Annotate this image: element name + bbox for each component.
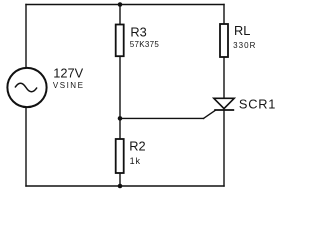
- resistor R3 body: [116, 25, 124, 57]
- wire middle branch top (top rail to R3): [119, 5, 121, 25]
- wire top rail: [26, 4, 224, 6]
- junction dot top (node at top rail / R3 branch): [118, 2, 123, 7]
- wire middle branch bottom (R2 to bottom rail): [119, 173, 121, 186]
- source V1 sine symbol: [15, 83, 37, 92]
- svg-text:R2: R2: [129, 139, 145, 154]
- wire right branch top (top rail to RL): [223, 5, 225, 25]
- wire left vertical (source anode): [25, 5, 27, 68]
- svg-text:1k: 1k: [130, 156, 141, 166]
- thyristor SCR1 triangle: [214, 98, 234, 108]
- source V1 circle: [7, 68, 46, 107]
- svg-text:57K375: 57K375: [130, 40, 160, 49]
- wire middle branch (R3 to R2 through gate node): [119, 56, 121, 139]
- wire gate horizontal segment: [120, 117, 204, 119]
- junction dot gate node: [118, 116, 123, 121]
- junction dot bottom (node at bottom rail / R2 branch): [118, 184, 123, 189]
- wire RL to SCR1 anode: [223, 57, 225, 98]
- svg-text:R3: R3: [130, 24, 146, 39]
- resistor RL body: [220, 24, 228, 57]
- svg-text:VSINE: VSINE: [53, 81, 85, 90]
- wire gate diagonal segment: [204, 110, 216, 118]
- wire left vertical lower (source cathode): [25, 108, 27, 186]
- svg-text:330R: 330R: [233, 41, 256, 50]
- wire SCR1 cathode to bottom rail: [223, 110, 225, 186]
- thyristor SCR1 cathode bar: [214, 109, 234, 111]
- svg-text:SCR1: SCR1: [239, 97, 276, 112]
- svg-text:RL: RL: [234, 23, 250, 38]
- svg-text:127V: 127V: [53, 66, 83, 81]
- wire bottom rail: [26, 185, 224, 187]
- resistor R2 body: [116, 139, 124, 173]
